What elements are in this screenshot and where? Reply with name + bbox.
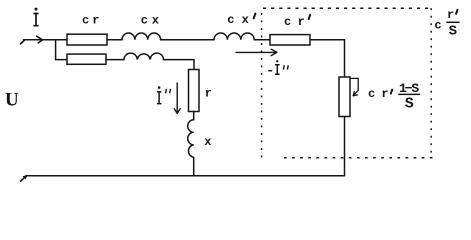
svg-text:x: x [242, 13, 249, 27]
inductor lower branch [124, 53, 164, 60]
svg-text:r: r [381, 87, 388, 101]
label -I'' (minus I double prime) [268, 60, 288, 74]
svg-text:U: U [5, 90, 19, 111]
bottom terminal arrow [21, 176, 27, 182]
wire to right corner [310, 40, 345, 77]
inductor c x (top) [122, 33, 161, 40]
resistor lower branch [67, 54, 106, 64]
svg-text:r: r [92, 13, 99, 27]
resistor c r'(1-S)/S vertical [339, 77, 350, 117]
label I1 (phasor dot I) top-left [33, 8, 38, 26]
svg-text:c: c [227, 13, 234, 27]
wire top between resistor and inductor [107, 39, 122, 41]
svg-text:c: c [434, 19, 441, 33]
svg-text:c: c [141, 13, 148, 27]
svg-text:x: x [204, 135, 211, 149]
svg-text:S: S [405, 96, 414, 113]
inductor c x' (top right) [214, 33, 254, 40]
dotted top edge [263, 7, 432, 9]
svg-text:x: x [152, 13, 159, 27]
label I'' (middle branch current) [157, 86, 171, 103]
wire into dotted box [254, 39, 270, 41]
svg-text:S: S [449, 24, 457, 40]
svg-text:c: c [284, 15, 291, 29]
resistor c r' [270, 35, 310, 45]
dotted box (referred secondary) [262, 8, 434, 158]
wire right vertical down [344, 117, 346, 176]
svg-text:c: c [368, 87, 375, 101]
dotted bottom edge [284, 157, 434, 159]
leader hook arrow on right resistor [350, 78, 358, 95]
wire resistor to coil [193, 112, 195, 120]
svg-text:S: S [411, 81, 419, 96]
resistor c r (top) [67, 34, 107, 45]
dotted left edge [261, 13, 263, 158]
wire coil to bottom [193, 157, 195, 176]
wire lower branch to middle vertical [164, 60, 195, 70]
svg-text:r: r [447, 8, 454, 22]
input terminal arrow top-left [21, 40, 25, 43]
current arrow I1 on top wire [37, 36, 43, 43]
inductor x (middle vertical coil) [188, 120, 194, 157]
svg-text:r: r [205, 86, 212, 100]
arrow -I'' rightward [236, 49, 277, 55]
arrow I'' downward [174, 83, 180, 114]
wire junction vertical [55, 40, 57, 60]
svg-text:r: r [298, 15, 305, 29]
dotted right edge [430, 8, 432, 157]
bottom wire [26, 175, 344, 177]
resistor r (middle vertical) [189, 70, 200, 112]
wire top input [24, 39, 68, 41]
wire top middle [161, 39, 214, 41]
svg-text:c: c [82, 13, 89, 27]
wire lower branch to inductor [106, 59, 124, 61]
wire lower branch start [56, 59, 67, 61]
